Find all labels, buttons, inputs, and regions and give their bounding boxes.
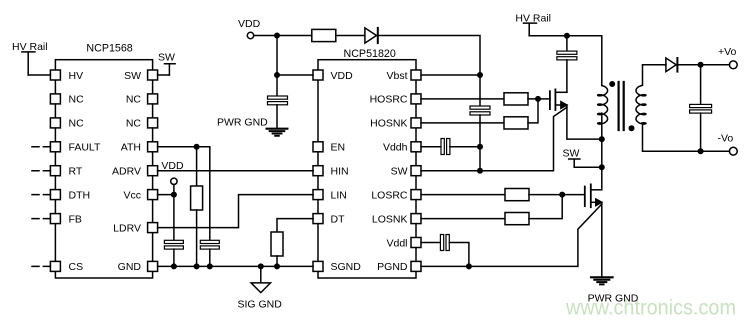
IC U1 NCP1568 xyxy=(50,43,157,278)
ground PWR GND (left) xyxy=(217,117,287,136)
node clamp junction xyxy=(564,33,570,39)
svg-text:Vddh: Vddh xyxy=(383,142,408,154)
node VDD junction xyxy=(274,33,280,39)
phase dot primary xyxy=(609,81,615,87)
node HS gate junction xyxy=(535,96,541,102)
wire R4 to gate xyxy=(528,98,550,100)
svg-text:LOSNK: LOSNK xyxy=(372,213,408,225)
capacitor C4 (bootstrap) xyxy=(470,75,490,171)
primary winding xyxy=(598,86,608,125)
svg-text:NCP51820: NCP51820 xyxy=(344,48,396,60)
svg-text:LDRV: LDRV xyxy=(113,222,141,234)
ground SIG GND xyxy=(238,266,283,310)
wire HOSNK xyxy=(421,122,504,124)
svg-text:VDD: VDD xyxy=(331,70,354,82)
wire HOSRC xyxy=(421,98,504,100)
svg-text:SIG GND: SIG GND xyxy=(238,299,283,311)
secondary winding xyxy=(636,86,646,125)
svg-text:Vddl: Vddl xyxy=(386,237,407,249)
transistor Q2 (low side MOSFET) xyxy=(585,184,602,207)
capacitor C3 (Vcc) xyxy=(164,195,183,267)
transformer T1 xyxy=(598,81,646,131)
capacitor C6 (Vddl) xyxy=(421,235,469,267)
resistor R3 (DT) xyxy=(271,232,283,266)
node Q1 source junction xyxy=(599,136,605,142)
diode D2 xyxy=(666,58,678,72)
wire PGND xyxy=(421,205,601,267)
svg-text:HV: HV xyxy=(69,70,84,82)
svg-text:Vcc: Vcc xyxy=(123,189,141,201)
svg-text:SW: SW xyxy=(158,52,175,64)
node SW flag junction xyxy=(599,164,605,170)
dashed stub FB xyxy=(32,218,50,220)
resistor R2 (ATH) xyxy=(191,147,203,267)
resistor R7 (LOSNK) xyxy=(505,213,529,225)
net flag SW (U1) xyxy=(158,52,175,76)
wire primary bottom lead xyxy=(601,113,603,123)
wire ADRV to HIN xyxy=(158,170,313,172)
wire secondary top xyxy=(643,65,664,86)
svg-text:FAULT: FAULT xyxy=(69,142,101,154)
node GND junctions xyxy=(171,263,280,269)
capacitor C5 (Vddh) xyxy=(421,139,480,155)
wire Vbst pin xyxy=(421,74,480,76)
svg-text:EN: EN xyxy=(331,142,346,154)
wire LOSRC xyxy=(421,194,505,196)
wire Vcc xyxy=(158,194,174,196)
node output junction xyxy=(698,62,704,68)
svg-text:VDD: VDD xyxy=(238,18,261,30)
svg-text:SW: SW xyxy=(124,70,141,82)
diode D1 xyxy=(365,28,378,43)
svg-text:PWR GND: PWR GND xyxy=(588,293,639,305)
terminal -Vo xyxy=(718,133,738,155)
core xyxy=(619,82,624,130)
wire DT xyxy=(277,219,313,232)
wire VDD node xyxy=(254,35,312,37)
svg-text:SW: SW xyxy=(391,166,408,178)
wire HV pin xyxy=(28,74,50,76)
dashed stub CS xyxy=(32,265,50,267)
wire GND bus xyxy=(158,265,313,267)
dashed stub RT xyxy=(32,170,50,172)
wire HV rail xyxy=(529,36,602,86)
svg-text:NC: NC xyxy=(126,118,142,130)
supply flag VDD (top) xyxy=(238,18,261,39)
dashed stub FAULT xyxy=(32,146,50,148)
svg-text:PGND: PGND xyxy=(377,261,408,273)
node LS gate junction xyxy=(559,192,565,198)
wire D2 to +Vo xyxy=(677,64,729,66)
wire VDD drop to U2 xyxy=(277,36,313,76)
resistor R4 (HOSRC) xyxy=(504,93,528,105)
svg-text:+Vo: +Vo xyxy=(718,46,737,58)
wire R1 to D1 xyxy=(336,35,365,37)
net flag SW (power stage) xyxy=(563,147,602,167)
ground PWR GND (right) xyxy=(588,277,639,304)
wire R6 to gate xyxy=(529,194,585,196)
wire Q1 source to SW node xyxy=(567,105,602,139)
svg-text:DT: DT xyxy=(331,213,346,225)
wire SW pin U1 xyxy=(158,74,170,76)
wire LDRV to LIN xyxy=(158,195,313,228)
wire R5 riser xyxy=(528,99,538,123)
svg-text:NC: NC xyxy=(126,94,142,106)
node Vbst junction xyxy=(477,72,483,78)
svg-text:ATH: ATH xyxy=(121,142,141,154)
phase dot secondary xyxy=(629,125,635,131)
wire SW pin to Q1 source xyxy=(421,107,567,170)
svg-text:ADRV: ADRV xyxy=(112,166,141,178)
svg-text:NC: NC xyxy=(69,94,85,106)
svg-text:LIN: LIN xyxy=(331,189,347,201)
supply flag VDD (Vcc) xyxy=(161,160,184,195)
dashed stub DTH xyxy=(32,194,50,196)
wire SW node vertical xyxy=(601,123,603,190)
node ATH junction xyxy=(194,144,200,150)
capacitor C2 (ATH) xyxy=(200,147,219,267)
svg-text:NC: NC xyxy=(69,118,85,130)
transistor Q1 (high side MOSFET) xyxy=(550,89,567,110)
wire LOSNK xyxy=(421,218,505,220)
capacitor C1 (VDD decoupling) xyxy=(268,75,288,128)
svg-text:HOSRC: HOSRC xyxy=(370,94,408,106)
wire D1 to Vbst xyxy=(378,36,480,76)
svg-text:SGND: SGND xyxy=(331,261,362,273)
svg-text:CS: CS xyxy=(69,261,84,273)
resistor R1 xyxy=(312,29,336,41)
svg-text:DTH: DTH xyxy=(69,189,91,201)
svg-text:FB: FB xyxy=(69,213,82,225)
node SW junction xyxy=(477,168,483,174)
wire secondary to D2 anode xyxy=(664,64,666,66)
IC U2 NCP51820 xyxy=(313,48,421,278)
svg-text:NCP1568: NCP1568 xyxy=(86,43,132,55)
node Vcc junction xyxy=(171,192,177,198)
wire R7 riser xyxy=(529,195,562,219)
svg-text:PWR GND: PWR GND xyxy=(217,117,268,129)
svg-text:-Vo: -Vo xyxy=(718,133,734,145)
capacitor C8 (output) xyxy=(690,65,712,151)
svg-text:SW: SW xyxy=(563,147,580,159)
svg-text:HOSNK: HOSNK xyxy=(370,118,407,130)
capacitor C7 (clamp) xyxy=(557,36,577,93)
svg-text:HIN: HIN xyxy=(331,166,349,178)
svg-text:GND: GND xyxy=(118,261,142,273)
net flag HV Rail (left) xyxy=(12,41,48,75)
node -Vo junction xyxy=(698,148,704,154)
svg-text:Vbst: Vbst xyxy=(386,70,407,82)
svg-text:RT: RT xyxy=(69,166,83,178)
resistor R5 (HOSNK) xyxy=(504,117,528,129)
terminal +Vo xyxy=(718,46,737,69)
wire ATH xyxy=(158,146,210,148)
net flag HV Rail (right) xyxy=(515,13,551,36)
node Vddh junction xyxy=(477,144,483,150)
node Vddl-PGND junction xyxy=(466,263,472,269)
wire secondary bottom to -Vo xyxy=(643,123,730,151)
svg-text:LOSRC: LOSRC xyxy=(371,189,408,201)
wire Q2 source to ground xyxy=(601,202,603,276)
node VDD-U2 junction xyxy=(274,72,280,78)
resistor R6 (LOSRC) xyxy=(505,189,529,201)
